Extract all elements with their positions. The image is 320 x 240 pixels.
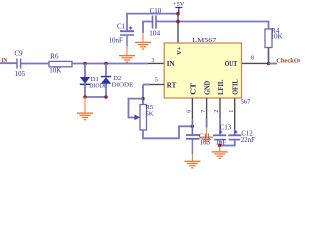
svg-text:LM567: LM567 [192,37,217,44]
svg-text:10K: 10K [49,67,61,75]
svg-text:D1: D1 [91,76,99,83]
wire RT to R5 [143,84,150,86]
power +5V [173,1,185,13]
ground below C13 C12 [212,147,228,160]
pin 2 wire LFIL column [219,98,221,120]
node junction bus A [176,12,180,16]
wire D2 anode drop [105,84,107,97]
svg-text:10K: 10K [271,33,283,41]
wire RT corner down [142,85,144,107]
svg-text:22nF: 22nF [241,137,255,144]
svg-text:5K: 5K [146,111,154,118]
capacitor C9 [15,50,26,79]
svg-text:LFIL: LFIL [217,79,225,95]
wire D1 anode drop [84,64,86,78]
pin 6 wire CT column [191,98,193,120]
pin 1 wire OFIL column [234,98,236,129]
capacitor C10 [149,7,161,38]
wire C13 bottom stem [219,140,221,147]
wire diode bottom rail [85,96,106,98]
wire D1 cathode drop [84,84,86,97]
wire R6 to IC pin3 [72,63,148,65]
svg-text:C9: C9 [15,50,24,58]
svg-text:CT: CT [189,83,197,95]
svg-text:C13: C13 [220,124,232,131]
capacitor C1 [109,23,135,45]
diode D1 [80,76,108,89]
ground below C11 [184,140,200,169]
wire C12 bottom to C13 bottom [220,140,235,146]
svg-text:OUT: OUT [225,61,238,68]
ground below diodes [77,97,93,120]
capacitor C13 [213,124,232,146]
pin V+ stub [177,22,179,44]
svg-text:DIODE: DIODE [112,83,134,89]
wire D2 cathode drop [105,64,107,78]
ground at GND pin [200,128,213,144]
ground below C1 [119,36,135,63]
pin 5 stub [150,84,164,86]
svg-text:105: 105 [15,70,26,78]
svg-text:10nF: 10nF [109,37,124,45]
svg-text:GND: GND [203,81,211,95]
svg-text:DIODE: DIODE [89,83,108,89]
capacitor C12 [228,130,255,144]
svg-text:OFIL: OFIL [231,79,239,95]
wire +5V bus to R4 [157,22,269,29]
pin 3 stub [148,62,164,64]
node junction bus B [176,20,180,24]
svg-text:103: 103 [200,139,211,147]
node junction C13 gnd [218,144,222,148]
wire R4 bottom lead [268,48,270,64]
wire R5 wiper loop [129,99,144,118]
potentiometer R5 [134,104,154,130]
svg-text:567: 567 [241,99,252,106]
wire C10 left lead to ground [143,22,152,34]
svg-text:D2: D2 [113,75,121,82]
capacitor C11 [186,135,200,139]
wire C9 to R6 [21,63,49,65]
diode D2 [101,75,134,89]
node junction CT [191,125,195,129]
node junction rail right [104,95,108,99]
node junction R5 top [141,97,145,101]
op-amp U1 LM567 body [164,37,251,106]
resistor R6 [49,53,72,75]
capacitor C11 labels [199,133,211,147]
wire V+ drop [177,14,179,22]
wire R5 bottom to CT [143,126,192,138]
svg-text:RT: RT [167,81,177,89]
svg-text:C10: C10 [150,7,162,15]
svg-text:IN: IN [167,60,175,68]
svg-text:C1: C1 [117,23,126,31]
svg-text:1: 1 [229,110,235,113]
wire OUT to label [269,63,278,65]
svg-text:6: 6 [186,110,192,113]
svg-text:8: 8 [251,56,254,62]
svg-text:3: 3 [152,58,155,64]
pin 8 stub OUT [242,62,269,64]
resistor R4 [265,27,283,48]
ground below C10 [135,33,151,50]
pin 7 wire GND column [206,98,208,118]
svg-text:R6: R6 [50,53,59,61]
svg-text:CheckOut: CheckOut [276,57,300,64]
node junction rail left [83,95,87,99]
node junction OUT [267,62,271,66]
wire IN to C9 [0,62,17,64]
node junction D2 [104,62,108,66]
svg-text:V+: V+ [176,46,183,55]
svg-text:2: 2 [214,110,220,113]
wire C1 riser [127,14,178,31]
svg-text:5: 5 [155,78,158,84]
svg-text:104: 104 [149,29,160,37]
node junction D1 [83,62,87,66]
svg-text:7: 7 [201,110,207,113]
